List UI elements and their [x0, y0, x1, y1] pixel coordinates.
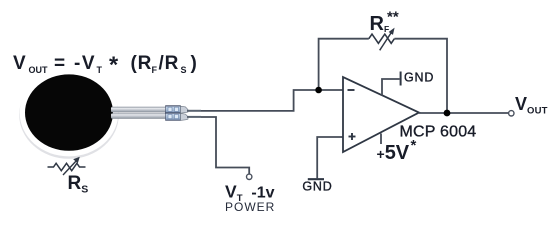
op-amp U1 triangle — [343, 77, 419, 152]
wire noninverting input to ground — [317, 137, 343, 178]
wire feedback loop right side — [394, 39, 447, 113]
resistor RS zigzag under sensor — [48, 163, 86, 170]
sensor photocell body shadow — [19, 71, 119, 159]
svg-text:GND: GND — [302, 180, 332, 194]
needle pin bottom — [187, 116, 201, 118]
svg-text:/R: /R — [159, 53, 180, 74]
output terminal circle — [509, 111, 514, 116]
sensor lead tube top — [111, 107, 167, 113]
ground symbol bottom bar — [308, 178, 324, 180]
wire top lead to inverting input — [201, 90, 343, 111]
connector block top — [166, 106, 181, 114]
sensor lead tube bottom — [111, 113, 167, 119]
svg-text:GND: GND — [404, 71, 434, 85]
top gnd pin bar — [400, 72, 402, 86]
top gnd pin wire — [382, 79, 400, 96]
connector block bottom — [166, 113, 181, 121]
svg-text:V: V — [13, 53, 26, 74]
svg-text:POWER: POWER — [225, 200, 275, 214]
RF wiper arrow — [380, 33, 391, 50]
minus input symbol — [348, 89, 355, 91]
svg-text:**: ** — [387, 9, 399, 26]
svg-text:F: F — [152, 65, 158, 75]
wire feedback loop left vertical — [319, 39, 369, 90]
power terminal circle — [247, 174, 252, 179]
svg-text:S: S — [181, 65, 187, 75]
svg-text:): ) — [191, 53, 197, 74]
plus input symbol — [349, 136, 356, 138]
svg-text:(R: (R — [131, 53, 153, 74]
svg-text:OUT: OUT — [29, 65, 49, 75]
resistor RF zigzag — [369, 34, 395, 43]
connector taper tip bottom — [181, 113, 189, 120]
output junction dot — [444, 110, 451, 117]
sensor photocell white rim — [20, 69, 119, 156]
svg-text:MCP 6004: MCP 6004 — [400, 124, 477, 141]
connector taper tip top — [181, 106, 189, 113]
svg-text:+5V: +5V — [377, 142, 410, 164]
+5V supply pin stub — [380, 134, 382, 145]
output wire — [419, 112, 509, 114]
svg-text:T: T — [97, 65, 103, 75]
needle pin top — [187, 110, 201, 112]
wire bottom lead to power terminal — [201, 117, 249, 174]
sensor photocell black face — [25, 74, 113, 150]
junction dot at inverting input — [315, 87, 322, 94]
formula label V_OUT = -V_T * (R_F/R_S) — [13, 52, 197, 78]
svg-text:*: * — [109, 52, 119, 78]
RS wiper arrow — [63, 160, 78, 176]
